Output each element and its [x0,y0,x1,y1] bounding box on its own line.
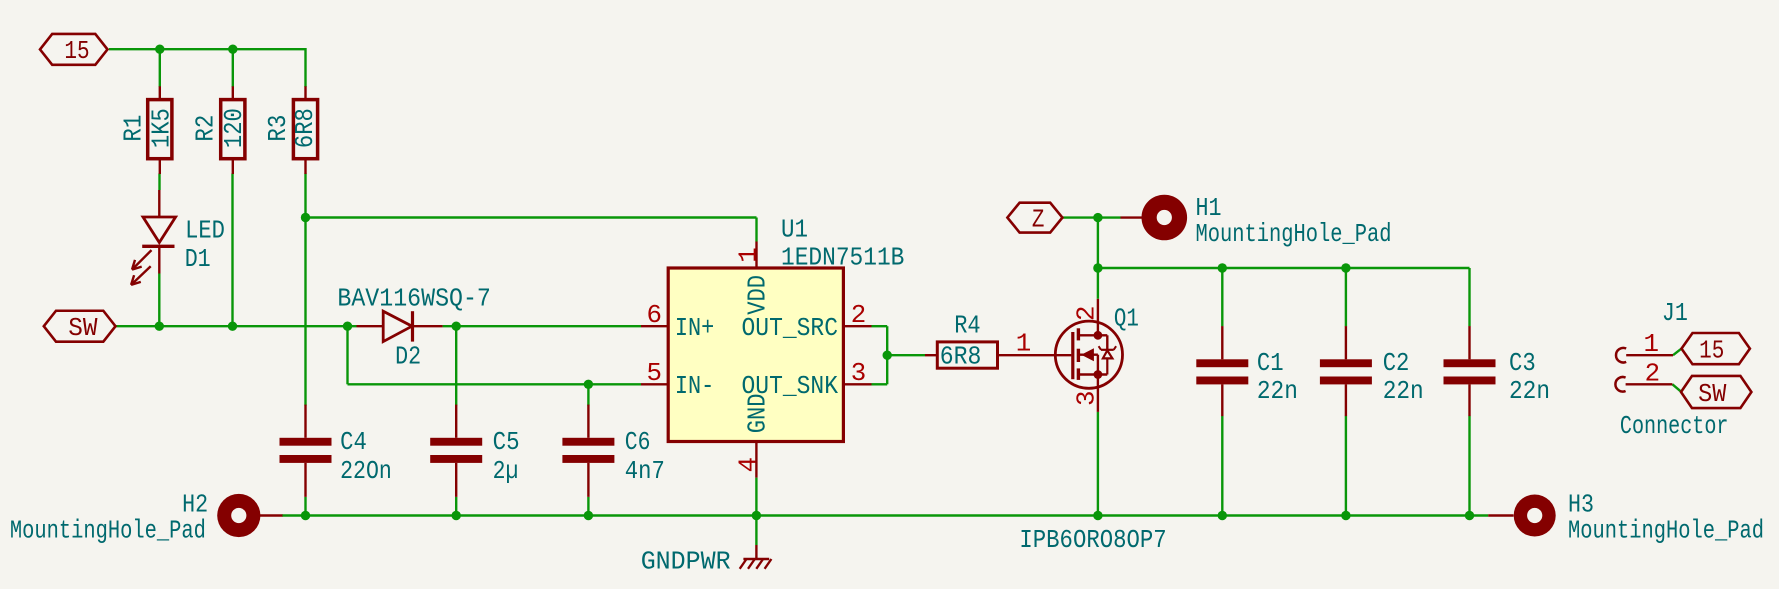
svg-text:Connector: Connector [1620,412,1729,441]
svg-text:1: 1 [734,247,763,262]
svg-text:BAV116WSQ-7: BAV116WSQ-7 [337,285,491,314]
svg-text:MountingHole_Pad: MountingHole_Pad [10,517,206,546]
global label SW (at J1) [1681,376,1751,408]
svg-text:D1: D1 [185,245,211,274]
mounting hole pad H3 [1514,495,1556,537]
svg-text:15: 15 [1699,336,1724,365]
svg-text:1K5: 1K5 [147,108,176,148]
wire J1 pin2 diagonal [1672,384,1680,391]
junction at 1469.5,515.5 [1465,511,1474,520]
junction at 1097.9,217.6 [1093,213,1102,222]
capacitor C3 [1444,326,1496,416]
svg-text:OUT_SRC: OUT_SRC [742,314,839,343]
svg-text:6R8: 6R8 [291,108,320,148]
wire J1 pin1 diagonal [1673,349,1682,356]
svg-text:H3: H3 [1568,491,1594,520]
wire OUT to R4 [887,354,925,356]
wire C3 bottom [1468,416,1470,516]
wire U1 pin4 to GNDPWR [755,478,757,545]
wire SW horizontal [116,325,357,327]
svg-text:15: 15 [64,37,89,66]
junction at 756.4,515.5 [752,511,761,520]
IC U1 1EDN7511B body [668,268,843,442]
wire GND rail [282,514,1488,516]
wire D2 cathode to IN+ [443,325,641,327]
wire C4 bottom [304,497,306,516]
wire IN- horizontal [348,383,642,385]
junction at 588.4,384.3 [584,380,593,389]
wire LED-SW [158,274,160,327]
U1 pin 2 OUT_SRC [843,325,871,327]
LED D1 [131,190,176,285]
wire C5 vertical [455,326,457,405]
svg-text:C4: C4 [340,428,367,457]
svg-text:SW: SW [1698,380,1727,409]
junction at 456.2,515.5 [452,511,461,520]
svg-text:Q1: Q1 [1114,305,1139,334]
resistor R2 [221,86,245,174]
junction at 232.5,326.2 [228,322,237,331]
junction at 305.5,217.5 [301,213,310,222]
svg-text:R1: R1 [119,115,148,142]
svg-text:1EDN7511B: 1EDN7511B [781,243,904,272]
junction at 1345.9,515.5 [1341,511,1350,520]
wire Z horizontal [1063,216,1121,218]
svg-text:H1: H1 [1196,194,1222,223]
junction at 232.8,49.2 [228,45,237,54]
svg-text:22n: 22n [1257,377,1298,406]
svg-text:VDD: VDD [743,275,772,315]
wire U1 pin3 stub [872,383,888,385]
svg-text:C2: C2 [1383,349,1410,378]
mounting hole pad H2 [217,494,260,537]
svg-text:R2: R2 [191,115,220,142]
svg-text:H2: H2 [182,491,208,520]
svg-text:5: 5 [647,359,662,388]
svg-text:R4: R4 [954,311,980,340]
svg-text:2: 2 [851,301,866,330]
junction at 305.5,515.5 [301,511,310,520]
svg-text:Z: Z [1032,205,1045,234]
junction at 887.2,355.2 [883,351,892,360]
svg-text:LED: LED [185,216,225,245]
wire C1 bottom [1221,416,1223,516]
svg-text:22n: 22n [1383,377,1424,406]
wire U1 pin2 stub [872,325,888,327]
wire R3-C4 vertical [304,174,306,406]
wire R2 top drop [232,49,234,87]
wire R1 top drop [159,49,161,87]
wire C3 top [1468,268,1470,326]
wire Z drop to Q1 [1097,218,1099,299]
junction at 588.4,515.5 [584,511,593,520]
connector J1 [1615,348,1673,392]
svg-text:IPB6ORO8OP7: IPB6ORO8OP7 [1019,526,1166,555]
svg-text:4: 4 [734,457,763,472]
svg-text:MountingHole_Pad: MountingHole_Pad [1196,220,1392,249]
svg-text:U1: U1 [781,215,808,244]
wire C6 vertical [587,384,589,405]
diode D2 [357,311,443,341]
resistor R3 [293,86,317,174]
svg-text:C3: C3 [1509,349,1536,378]
svg-text:C5: C5 [493,428,520,457]
capacitor C5 [430,405,482,497]
svg-text:6: 6 [647,301,662,330]
U1 pin 5 IN- [641,383,668,385]
svg-text:IN-: IN- [675,372,714,401]
svg-text:IN+: IN+ [675,314,714,343]
global label 15 (top left) [40,34,108,65]
svg-text:2: 2 [1073,305,1102,320]
svg-text:MountingHole_Pad: MountingHole_Pad [1568,517,1764,546]
transistor Q1 [1055,299,1122,412]
svg-text:J1: J1 [1662,299,1688,328]
junction at 1222.3,268 [1218,263,1227,272]
svg-text:3: 3 [1073,390,1102,405]
wire SW branch down [346,326,348,384]
junction at 1097.9,515.5 [1093,511,1102,520]
junction at 1345.9,268 [1341,263,1350,272]
svg-text:GND: GND [743,394,772,434]
svg-text:3: 3 [851,359,866,388]
capacitor C1 [1196,326,1248,416]
wire top rail to C3 [1098,267,1470,269]
svg-text:22On: 22On [340,457,392,486]
wire OUT join vertical [886,326,888,384]
svg-text:120: 120 [220,108,249,148]
global label Z [1007,203,1062,233]
U1 pin 6 IN+ [641,325,668,327]
global label SW (left) [44,311,116,342]
junction at 456.2,326.2 [452,322,461,331]
junction at 159.3,326.2 [155,322,164,331]
junction at 1097.9,268 [1093,263,1102,272]
capacitor C4 [280,405,332,497]
resistor R4 [925,342,1071,368]
svg-text:22n: 22n [1509,377,1550,406]
wire Q1 source down [1097,412,1099,516]
wire C2 bottom [1345,416,1347,516]
wire 15-net top horizontal [109,48,306,50]
svg-text:1: 1 [1644,330,1659,359]
U1 pin 3 OUT_SNK [843,383,871,385]
svg-text:C1: C1 [1257,349,1284,378]
svg-text:R3: R3 [264,115,293,142]
wire C2 top [1345,268,1347,326]
svg-text:6R8: 6R8 [940,342,982,371]
svg-text:1: 1 [1016,330,1031,359]
U1 pin 4 GND [755,442,757,478]
svg-text:C6: C6 [625,428,651,457]
svg-text:4n7: 4n7 [625,457,665,486]
svg-text:SW: SW [68,314,98,343]
global label 15 (at J1) [1682,333,1750,364]
wire C1 top [1221,268,1223,326]
junction at 1222.3,515.5 [1218,511,1227,520]
svg-text:2: 2 [1645,359,1660,388]
capacitor C6 [562,405,614,497]
wire C5 bottom [455,497,457,516]
mounting hole pad H1 [1142,195,1188,241]
U1 pin 1 OVDD [755,242,757,269]
resistor R1 [148,86,172,174]
wire OVDD horizontal [306,216,757,218]
svg-text:D2: D2 [395,343,421,372]
wire R1-LED [158,174,160,191]
power symbol GNDPWR [740,545,772,569]
wire C6 bottom [587,497,589,516]
wire OVDD drop to U1 pin1 [755,218,757,242]
junction at 159.8,49.2 [155,45,164,54]
svg-text:2µ: 2µ [493,457,519,486]
junction at 347.5,326.2 [343,322,352,331]
wire R3 top drop [304,48,306,87]
wire R2-SW [231,174,233,327]
svg-text:GNDPWR: GNDPWR [641,548,731,577]
capacitor C2 [1320,326,1372,416]
